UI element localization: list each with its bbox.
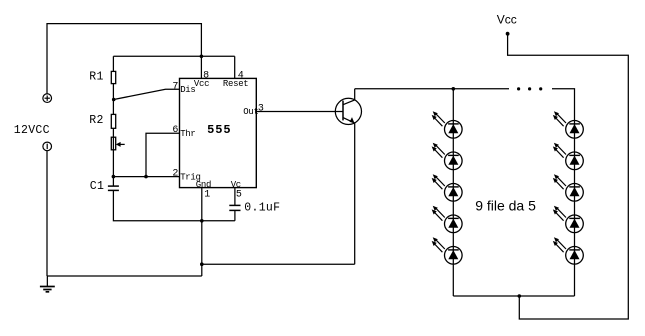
ellipsis dots [517, 87, 520, 90]
junction emitter rail/pin1 [200, 262, 204, 266]
node Vcc terminal top right [506, 32, 510, 36]
transistor Q1 [335, 89, 361, 264]
wire C1 bottom to junction [113, 190, 234, 220]
svg-text:6: 6 [172, 125, 178, 136]
wire pin6 Thr branch [146, 133, 179, 176]
svg-text:Thr: Thr [180, 129, 195, 139]
wire pin1 Gnd drop [201, 188, 203, 276]
junction R1/R2/Dis [112, 98, 116, 102]
wire R1-R2 junction diagonal to pin7 Dis [114, 89, 180, 99]
wire pin4 Reset drop [234, 56, 236, 78]
junction bottom rail/Vcc return [518, 294, 522, 298]
wire LED top rail right segment [552, 89, 575, 296]
svg-text:Vcc: Vcc [497, 12, 517, 26]
wire pin3 Out to transistor base [256, 111, 343, 113]
LED D1 (left column row 1) [432, 111, 462, 138]
svg-text:Vc: Vc [231, 180, 241, 190]
wire pin2 Trig [113, 176, 179, 178]
LED D8 (right column row 3) [553, 174, 583, 201]
wire collector to LED top rail [355, 88, 509, 90]
svg-text:3: 3 [258, 104, 264, 115]
wire R1/R2/C1 chain vertical [112, 56, 114, 186]
svg-text:555: 555 [207, 123, 231, 137]
wire bottom-right Vcc return [508, 35, 629, 319]
capacitor 0.1uF [229, 205, 240, 210]
wire pin5 Vc to 0.1uF [234, 188, 236, 206]
LED D7 (right column row 2) [553, 143, 583, 170]
junction LED left column top [452, 87, 456, 91]
junction C1-0.1uF-pin1 [200, 219, 204, 223]
wire top-left horizontal from 12VCC+ to pin8 column [47, 24, 201, 95]
svg-text:12VCC: 12VCC [14, 124, 50, 137]
op-amp/timer U1 555 box [180, 78, 257, 187]
svg-text:R1: R1 [89, 71, 103, 84]
junction pin8/top wire [200, 55, 204, 59]
capacitor C1 [108, 186, 119, 190]
svg-text:0.1uF: 0.1uF [244, 202, 280, 215]
svg-text:1: 1 [204, 189, 210, 200]
LED D6 (right column row 1) [553, 111, 583, 138]
resistor R1 [111, 71, 115, 83]
junction Trig/C1 [112, 175, 116, 179]
svg-text:R2: R2 [89, 114, 103, 127]
svg-text:7: 7 [172, 81, 178, 92]
wire 0.1uF bottom lead [234, 210, 236, 220]
svg-text:Dis: Dis [180, 85, 195, 95]
LED D4 (left column row 4) [432, 206, 462, 233]
LED D5 (left column row 5) [432, 237, 462, 264]
wire left rail below 12VCC terminal [46, 151, 48, 277]
svg-text:9 file da 5: 9 file da 5 [475, 197, 536, 213]
junction Thr/Trig [144, 175, 148, 179]
svg-text:2: 2 [172, 169, 178, 180]
svg-text:Gnd: Gnd [196, 180, 211, 190]
svg-text:Reset: Reset [223, 79, 249, 89]
svg-text:5: 5 [236, 189, 242, 200]
wire transistor emitter rail to ground [202, 263, 355, 265]
LED D2 (left column row 2) [432, 143, 462, 170]
wire LED left column [452, 89, 454, 296]
resistor R2 (upper body of potentiometer) [111, 114, 115, 128]
wire LED bottom rail [453, 295, 574, 297]
svg-text:Vcc: Vcc [194, 79, 209, 89]
wire bottom-left ground run [47, 275, 202, 277]
LED D10 (right column row 5) [553, 237, 583, 264]
svg-text:Out: Out [243, 107, 258, 117]
trimmer body with wiper arrow [111, 137, 124, 150]
wire Vcc rail to R1 top and pin4 [113, 55, 234, 57]
svg-text:C1: C1 [90, 180, 104, 193]
LED D3 (left column row 3) [432, 174, 462, 201]
12VCC source negative terminal [43, 142, 52, 151]
ground [40, 276, 55, 292]
12VCC source positive terminal [43, 94, 52, 103]
LED D9 (right column row 4) [553, 206, 583, 233]
